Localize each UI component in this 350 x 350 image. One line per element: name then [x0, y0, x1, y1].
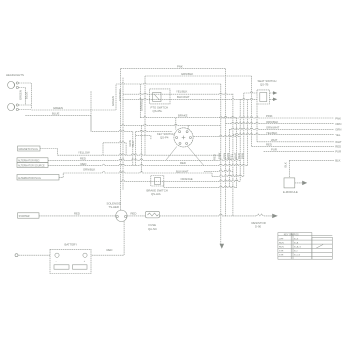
svg-text:ORN/BLK: ORN/BLK — [83, 168, 95, 172]
svg-text:ALTERNATOR PLUG: ALTERNATOR PLUG — [18, 177, 41, 180]
svg-text:GREEN: GREEN — [53, 106, 63, 110]
svg-text:PUR: PUR — [335, 150, 341, 154]
svg-text:PNK: PNK — [177, 65, 183, 69]
svg-text:ORN/BLK: ORN/BLK — [266, 120, 278, 124]
svg-text:B+I+S: B+I+S — [294, 255, 301, 257]
svg-text:RED: RED — [266, 143, 272, 147]
svg-text:ALTERNATOR SOURCE: ALTERNATOR SOURCE — [18, 164, 45, 167]
svg-text:B+I: B+I — [294, 251, 298, 253]
svg-text:MAGNETO PLUG: MAGNETO PLUG — [19, 148, 38, 151]
svg-text:BLUE: BLUE — [25, 92, 29, 99]
svg-text:YELLOW: YELLOW — [78, 150, 90, 154]
svg-text:E-MODULE: E-MODULE — [283, 190, 298, 194]
svg-text:PNK: PNK — [335, 116, 341, 120]
svg-text:BRN: BRN — [241, 153, 245, 159]
svg-text:D-90: D-90 — [255, 225, 262, 229]
svg-text:BLUE: BLUE — [52, 112, 59, 116]
svg-text:RED: RED — [335, 145, 341, 149]
svg-text:YEL: YEL — [335, 133, 341, 137]
svg-text:BLK/WHT: BLK/WHT — [177, 95, 190, 99]
svg-text:PUR: PUR — [271, 148, 277, 152]
svg-text:KEY SW POS: KEY SW POS — [284, 233, 299, 236]
svg-text:GRN: GRN — [335, 128, 341, 132]
svg-text:PINK: PINK — [266, 114, 273, 118]
svg-text:BATTERY: BATTERY — [65, 242, 78, 246]
svg-text:GRN/WHT: GRN/WHT — [266, 126, 280, 130]
svg-text:QS-P4: QS-P4 — [160, 135, 169, 139]
svg-text:TS-HER: TS-HER — [109, 205, 119, 209]
svg-text:ALTERNATOR REG: ALTERNATOR REG — [18, 160, 40, 163]
svg-text:RED: RED — [81, 162, 87, 166]
svg-text:GRN/BLK: GRN/BLK — [118, 89, 122, 101]
svg-text:OFF: OFF — [279, 238, 284, 240]
svg-text:STR: STR — [279, 251, 284, 253]
svg-text:BLK: BLK — [284, 162, 288, 167]
svg-text:B+S: B+S — [294, 238, 299, 240]
svg-text:BRAKE: BRAKE — [178, 114, 188, 118]
svg-text:RED: RED — [131, 212, 137, 216]
svg-text:BLU: BLU — [131, 141, 135, 146]
svg-text:YEL/BLK: YEL/BLK — [266, 131, 277, 135]
svg-text:RED: RED — [180, 161, 186, 165]
svg-text:STR: STR — [279, 255, 284, 257]
svg-text:QS-05L: QS-05L — [153, 109, 163, 113]
svg-text:GRN/BLK: GRN/BLK — [140, 99, 144, 111]
svg-text:GRN/BLK: GRN/BLK — [181, 72, 193, 76]
svg-text:WHT: WHT — [335, 140, 342, 144]
svg-text:RED: RED — [80, 156, 86, 160]
svg-text:STARTER: STARTER — [19, 215, 30, 218]
svg-text:HEADLIGHTS: HEADLIGHTS — [6, 73, 24, 77]
svg-text:QS-7B: QS-7B — [260, 82, 269, 86]
svg-text:QS-HIA: QS-HIA — [151, 192, 161, 196]
svg-text:RED: RED — [213, 154, 217, 160]
svg-text:RED: RED — [107, 248, 113, 252]
svg-text:GREEN: GREEN — [111, 96, 115, 106]
svg-text:RUN: RUN — [279, 247, 284, 249]
svg-text:PINK: PINK — [218, 152, 222, 159]
svg-text:WHT: WHT — [271, 138, 278, 142]
svg-text:YEL/BLK: YEL/BLK — [176, 90, 187, 94]
svg-text:RED: RED — [74, 212, 80, 216]
svg-text:GREEN: GREEN — [19, 90, 23, 100]
svg-text:ORANGE: ORANGE — [181, 177, 193, 181]
svg-text:B+A: B+A — [294, 242, 299, 245]
svg-text:BLK: BLK — [335, 159, 340, 163]
svg-text:ORN: ORN — [335, 122, 341, 126]
svg-text:B+A+S: B+A+S — [294, 246, 301, 249]
svg-text:BLK/WHT: BLK/WHT — [176, 169, 189, 173]
svg-text:RUN: RUN — [279, 243, 284, 245]
svg-text:QA-NC: QA-NC — [148, 227, 157, 231]
